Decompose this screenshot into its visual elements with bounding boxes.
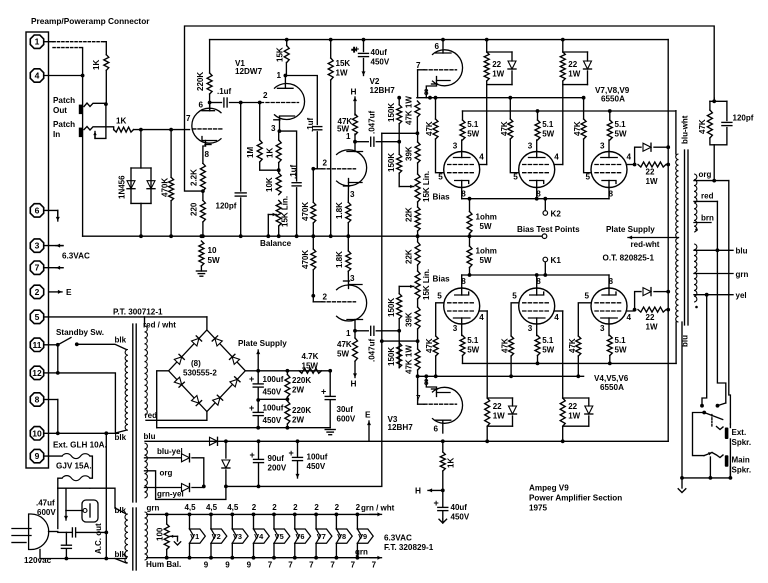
wire 47K grid to pin5 V9 — [584, 139, 591, 173]
speaker common rail — [681, 322, 683, 478]
bridge diode 8 — [230, 377, 240, 387]
svg-text:Balance: Balance — [260, 239, 292, 248]
svg-text:150K: 150K — [387, 103, 396, 122]
wire 220K feed — [209, 40, 211, 73]
wire 150K to 47K1W link — [382, 340, 418, 342]
junction V1 pin6 — [208, 101, 212, 105]
svg-text:470K: 470K — [301, 250, 310, 269]
resistor 5.1 5W (V5) — [535, 336, 540, 356]
tube V9 cathode — [602, 181, 616, 188]
pair2 bottom bar — [563, 81, 588, 85]
wire 470K-2 top — [312, 169, 314, 203]
svg-text:V2: V2 — [212, 532, 221, 541]
junction screen busb V5 — [536, 362, 540, 366]
wire 120pf bottom — [240, 198, 242, 236]
switch contact right stub — [718, 403, 726, 406]
brn tap — [694, 222, 711, 224]
svg-text:Plate Supply: Plate Supply — [238, 339, 287, 348]
OT core line 1 — [684, 150, 686, 325]
resistor 22 1W (bottom 2) — [560, 398, 565, 426]
switch contact left — [700, 404, 704, 408]
pin8 bus bottom — [462, 274, 609, 276]
dotted line from pin 1 — [53, 41, 104, 43]
wire 470K-3 bottom — [312, 270, 314, 296]
resistor 10 5W — [199, 241, 204, 266]
heater stub bottom V2 — [210, 543, 212, 558]
tube V6 grid2 dash — [595, 302, 623, 304]
junction pin8-10 — [56, 431, 60, 435]
junction hum top — [165, 513, 169, 517]
bias bus bottom — [418, 375, 584, 377]
junction heater bottom V2 — [209, 556, 213, 560]
svg-text:100: 100 — [156, 527, 165, 541]
resistor 1M — [257, 140, 262, 162]
resistor 2.2K — [200, 163, 205, 191]
junction K1 stub — [543, 273, 547, 277]
junction 47K grid top V7 — [434, 96, 438, 100]
tube V3b grid wire — [418, 403, 424, 405]
svg-text:5: 5 — [438, 173, 443, 182]
svg-text:Standby Sw.: Standby Sw. — [56, 328, 104, 337]
svg-text:2.2K: 2.2K — [190, 169, 199, 186]
tube V7 grid2 dash — [448, 172, 476, 174]
wire 220 top — [202, 191, 204, 200]
pin3 arrow — [56, 244, 63, 248]
junction heater bottom V1 — [188, 556, 192, 560]
svg-text:47K: 47K — [337, 340, 352, 349]
svg-text:2W: 2W — [292, 416, 304, 425]
capacitor 40uf 450V (top) — [352, 45, 369, 57]
wire 90uf top — [258, 441, 260, 459]
bias feed line — [226, 485, 382, 487]
pair1 bottom bar — [487, 81, 512, 85]
wire V2a cathode down — [347, 183, 349, 203]
resistor 47K 5W (top) — [353, 114, 358, 135]
svg-text:4: 4 — [627, 152, 632, 161]
wire 47K5W bot — [354, 331, 356, 338]
heater chevron V1 — [190, 529, 206, 543]
heater stub top V3 — [231, 514, 233, 529]
bridge diode 3 — [230, 354, 240, 364]
PT bias secondary winding — [145, 443, 148, 498]
switch pin11 node — [56, 343, 60, 347]
wire pin3 V4 — [461, 324, 463, 336]
heater stub top V7 — [315, 514, 317, 529]
svg-text:7: 7 — [186, 114, 191, 123]
resistor 47K 1W (top) — [415, 101, 420, 117]
diode plate (bottom 2) — [585, 406, 593, 414]
pairb1 bot bar — [487, 425, 512, 427]
svg-text:1N456: 1N456 — [118, 175, 127, 199]
svg-text:1W: 1W — [568, 412, 580, 421]
wire pin3 V6 — [608, 324, 610, 336]
svg-text:Plate Supply: Plate Supply — [606, 225, 655, 234]
resistor 1ohm 5W (bottom) — [467, 246, 472, 268]
bias feed wire — [381, 133, 383, 485]
connector pin 11 — [30, 338, 43, 351]
capacitor 120pf — [235, 193, 246, 196]
junction 47K1W b — [416, 339, 420, 343]
junction ac bottom2 — [104, 557, 108, 561]
wire 150K1 top — [398, 98, 400, 105]
junction heater bottom V9 — [356, 556, 360, 560]
arrow H bottom — [353, 361, 357, 377]
svg-text:10K: 10K — [265, 177, 274, 192]
pin8 bus top — [462, 198, 609, 200]
pair2 diode wires2 — [587, 71, 589, 85]
svg-text:5W: 5W — [480, 222, 492, 231]
resistor 39K (bottom) — [415, 307, 420, 329]
main jack contact arrow — [704, 452, 712, 455]
AC plug — [29, 514, 49, 550]
svg-text:F.T. 320829-1: F.T. 320829-1 — [384, 543, 434, 552]
wire 470K-3 top — [312, 236, 314, 249]
heater stub bottom V6 — [294, 543, 296, 558]
svg-text:2: 2 — [335, 503, 340, 512]
ext jack sleeve drop — [729, 439, 731, 478]
socket gnd arrow — [64, 511, 68, 521]
svg-text:22: 22 — [568, 402, 577, 411]
hum pot bot wire — [166, 549, 168, 557]
resistor 47K 5W (bottom) — [353, 338, 358, 361]
svg-text:15K Lin.: 15K Lin. — [422, 171, 431, 202]
wire 47K1W-39K join — [417, 133, 419, 142]
svg-text:12BH7: 12BH7 — [388, 423, 414, 432]
diode grn-yel — [182, 484, 190, 492]
tube V2b plate — [436, 40, 452, 53]
svg-text:5.1: 5.1 — [467, 336, 479, 345]
potentiometer 15K Lin (top) — [415, 174, 420, 202]
svg-text:.047uf: .047uf — [368, 339, 377, 362]
svg-text:1975: 1975 — [529, 504, 548, 513]
svg-text:5.1: 5.1 — [467, 120, 479, 129]
tube V2b envelope — [432, 50, 463, 86]
wire pin4 — [44, 75, 82, 77]
junction heater top V2 — [209, 513, 213, 517]
wire pin3 V8 — [536, 140, 538, 152]
resistor 1.8K (V3) — [346, 251, 351, 271]
svg-text:2: 2 — [252, 503, 257, 512]
tube V2b grid wire — [418, 69, 424, 71]
jack switch bracket — [95, 104, 106, 138]
bridge diode 2 — [192, 336, 202, 346]
diode plate V9 — [643, 143, 651, 151]
wire pairb2 to pin4 — [562, 311, 564, 398]
wire cap to grid2 — [230, 102, 264, 104]
OT polarity dot top — [695, 228, 698, 231]
FT blk top — [115, 508, 126, 514]
svg-text:3: 3 — [528, 324, 533, 333]
wire 47K grid to pin5 V6 — [578, 303, 591, 336]
junction heater top V8 — [335, 513, 339, 517]
svg-text:2: 2 — [263, 91, 268, 100]
wire 1K v3 bottom — [442, 471, 444, 490]
svg-text:5W: 5W — [615, 346, 627, 355]
svg-text:530555-2: 530555-2 — [183, 369, 217, 378]
wire 220 bottom — [202, 222, 204, 236]
svg-text:47K: 47K — [500, 121, 509, 136]
wire caps-220K link — [258, 398, 287, 400]
svg-text:K1: K1 — [551, 256, 562, 265]
heater bus top — [147, 513, 376, 515]
resistor 220K 2W (2) — [285, 401, 290, 424]
wire cf cap to bus — [296, 188, 298, 236]
plate supply line y39.6 — [210, 39, 669, 41]
svg-text:220: 220 — [190, 202, 199, 216]
tube V3b envelope — [432, 387, 463, 423]
tube V5 plate — [529, 318, 545, 324]
wire V3grid to V3 dash — [312, 296, 314, 302]
svg-text:1W: 1W — [493, 412, 505, 421]
connector pin 9 — [30, 449, 43, 462]
standby contact — [75, 342, 79, 346]
svg-text:47K: 47K — [568, 338, 577, 353]
svg-text:Ampeg V9: Ampeg V9 — [529, 484, 569, 493]
svg-text:GJV 15A.: GJV 15A. — [56, 462, 92, 471]
svg-text:3: 3 — [453, 324, 458, 333]
svg-text:5.1: 5.1 — [542, 336, 554, 345]
svg-text:Out: Out — [53, 106, 67, 115]
resistor 1ohm 5W (top) — [467, 212, 472, 234]
junction V2 grid node — [311, 167, 315, 171]
svg-text:+: + — [249, 403, 254, 413]
junction pin8b — [535, 273, 539, 277]
svg-text:47K 1W: 47K 1W — [405, 345, 414, 374]
tube V9 plate — [601, 152, 617, 158]
bias diode drop — [225, 441, 227, 458]
junction ac bottom — [65, 557, 69, 561]
wire 1M top — [259, 103, 261, 141]
wire 1K bottom — [105, 70, 107, 104]
heater chevron V8 — [336, 529, 352, 543]
wire pin3 V7 — [461, 140, 463, 152]
wire 22Kb top — [417, 236, 419, 241]
fuse link mid — [58, 487, 90, 489]
svg-text:+: + — [434, 498, 439, 508]
main jack contact drop — [709, 457, 711, 478]
svg-text:4,5: 4,5 — [206, 503, 218, 512]
feedback bottom drop — [713, 145, 715, 181]
wire 100uf1 top — [257, 371, 259, 384]
fuse GLH — [62, 454, 90, 459]
pair2 top bar — [563, 51, 588, 53]
grn-yel tap — [145, 487, 182, 489]
junction feedback org — [712, 179, 716, 183]
svg-text:1: 1 — [277, 71, 282, 80]
tube V9 grid2 dash — [595, 172, 623, 174]
connector pin 12 — [30, 366, 43, 379]
hum wiper arrow — [170, 535, 178, 538]
wire 470K top — [170, 130, 172, 178]
switch common wire — [693, 413, 705, 456]
svg-text:450V: 450V — [451, 513, 470, 522]
resistor 220K — [207, 73, 212, 94]
wire pairb1 bottom — [486, 426, 488, 441]
svg-text:90uf: 90uf — [268, 454, 285, 463]
junction 100uf rail — [256, 426, 260, 430]
svg-text:5W: 5W — [337, 350, 349, 359]
heater stub bottom V9 — [356, 543, 358, 558]
svg-text:blu: blu — [736, 247, 748, 256]
output tube V7 envelope — [444, 152, 480, 188]
tube V2a grid dash — [322, 168, 356, 170]
heater stub top V5 — [273, 514, 275, 529]
svg-text:1K: 1K — [266, 148, 275, 158]
hum pot top wire — [166, 514, 168, 524]
svg-text:100uf: 100uf — [263, 375, 284, 384]
wire 100uf3 top — [297, 441, 299, 457]
junction V9 22 rail — [666, 163, 670, 167]
pin12 wire — [44, 372, 58, 374]
svg-text:1W: 1W — [646, 177, 658, 186]
FT feed top — [90, 488, 115, 508]
pair1 top bar — [487, 51, 512, 53]
svg-text:4: 4 — [627, 313, 632, 322]
pin12 to PT — [58, 373, 127, 433]
junction 2.2K-220 — [201, 189, 205, 193]
svg-text:.1uf: .1uf — [289, 164, 298, 179]
diode bias bus — [210, 437, 218, 445]
svg-text:6550A: 6550A — [601, 94, 625, 103]
bridge diode 6 — [192, 396, 202, 406]
svg-text:4: 4 — [35, 71, 40, 81]
svg-text:11: 11 — [33, 340, 42, 350]
svg-text:2W: 2W — [292, 386, 304, 395]
wire pin6 to cap — [210, 102, 222, 104]
wire pin3 V5 — [536, 324, 538, 336]
junction pin1 V1b — [284, 74, 288, 78]
svg-text:22: 22 — [493, 402, 502, 411]
output tube V6 envelope — [591, 288, 627, 324]
capv wire — [65, 532, 67, 544]
svg-text:12DW7: 12DW7 — [235, 67, 263, 76]
wire K1 stub — [544, 262, 546, 275]
main jack sleeve drop — [729, 467, 731, 478]
junction heater top V6 — [293, 513, 297, 517]
arrow E bottom — [367, 421, 371, 441]
capacitor AC line 1 — [72, 528, 75, 537]
resistor 22 1W (V6) — [638, 307, 666, 312]
resistor 5.1 5W (V4) — [460, 336, 465, 356]
potentiometer 15K Lin (balance) — [276, 200, 281, 226]
junction pin10 drop — [104, 431, 108, 435]
tube V3b cathode — [432, 389, 451, 397]
wire 47K grid to pin5 V7 — [436, 139, 444, 173]
diode box top — [131, 167, 151, 169]
tube V5 grid2 dash — [523, 302, 551, 304]
svg-text:2: 2 — [356, 503, 361, 512]
svg-text:2: 2 — [293, 503, 298, 512]
wire 39K to 47K1W — [417, 329, 419, 349]
junction heater top V3 — [230, 513, 234, 517]
wire pairb2 bottom — [562, 426, 564, 441]
junction heater bottom V4 — [252, 556, 256, 560]
wire 1K v1b bottom — [278, 163, 280, 173]
diode plate (bottom 1) — [509, 406, 517, 414]
svg-text:12BH7: 12BH7 — [370, 86, 396, 95]
heater chevron V3 — [232, 529, 248, 543]
resistor 5.1 5W (V8) — [535, 120, 540, 140]
svg-text:15K: 15K — [336, 59, 351, 68]
wire pin4 stub V7 — [479, 164, 487, 166]
svg-text:470K: 470K — [301, 202, 310, 221]
wire 1K v1b top — [278, 131, 280, 140]
svg-text:7: 7 — [416, 394, 421, 403]
junction 150K mid bottom — [397, 329, 401, 333]
arrow 40uf down — [362, 59, 366, 76]
arrow H top — [353, 97, 357, 115]
standby lever — [58, 338, 71, 345]
heater chevron V6 — [295, 529, 311, 543]
svg-text:+: + — [250, 450, 255, 460]
tube V8 plate — [529, 152, 545, 158]
svg-text:5W: 5W — [467, 130, 479, 139]
resistor 470K (V2 grid) — [311, 202, 316, 223]
tube V7 plate — [454, 152, 470, 158]
capacitor 100uf 450V (3) — [293, 457, 303, 460]
bridge diode 1 — [174, 354, 184, 364]
bottom bus — [145, 440, 668, 442]
bias test point center — [542, 234, 547, 239]
wire 15K top — [286, 40, 288, 46]
junction 47K grid bot V4 — [434, 374, 438, 378]
grn tap — [694, 273, 733, 275]
tube V1b plate — [278, 76, 294, 89]
svg-text:E: E — [66, 287, 72, 297]
diode box bottom — [131, 202, 151, 204]
junction heater bottom V7 — [314, 556, 318, 560]
speaker bottom wire — [682, 477, 730, 479]
svg-text:220K: 220K — [292, 406, 311, 415]
wire pair1 to pin4 — [486, 85, 488, 165]
svg-text:blk: blk — [115, 433, 127, 442]
diode box left — [130, 168, 132, 203]
heater stub bottom V8 — [335, 543, 337, 558]
svg-text:Ext.: Ext. — [732, 428, 747, 437]
ground 10ohm — [196, 271, 206, 276]
svg-text:V8: V8 — [337, 532, 346, 541]
tube V3a plate — [347, 320, 363, 331]
junction pair2 rail — [561, 38, 565, 42]
hum gnd arrow — [174, 542, 180, 545]
tube V5 cathode — [530, 288, 544, 295]
wiper arrow bottom — [399, 285, 414, 288]
svg-text:.47uf: .47uf — [36, 499, 55, 508]
bias diode drop2 — [225, 470, 227, 486]
svg-text:6550A: 6550A — [600, 383, 624, 392]
svg-text:120pf: 120pf — [733, 114, 754, 123]
fuse link right — [90, 456, 92, 478]
svg-text:22K: 22K — [405, 249, 414, 264]
resistor 5.1 5W (V7) — [460, 120, 465, 140]
junction 1ohm bot — [468, 273, 472, 277]
svg-text:3: 3 — [350, 274, 355, 283]
wire coupling bend — [313, 168, 317, 170]
junction bias feed — [380, 339, 384, 343]
pin7 wire — [44, 267, 63, 269]
junction 1ohm bus — [468, 234, 472, 238]
svg-text:1.8K: 1.8K — [335, 202, 344, 219]
junction heater top V1 — [188, 513, 192, 517]
resistor 150K (top upper) — [397, 105, 402, 124]
svg-text:470K: 470K — [161, 178, 170, 197]
wire 47K grid to pin5 V8 — [510, 139, 518, 173]
wire pin1 right — [285, 76, 317, 125]
diode box right — [150, 168, 152, 203]
svg-text:In: In — [53, 130, 60, 139]
blu-yel tap — [145, 457, 182, 459]
screen bus bottom — [463, 362, 677, 364]
